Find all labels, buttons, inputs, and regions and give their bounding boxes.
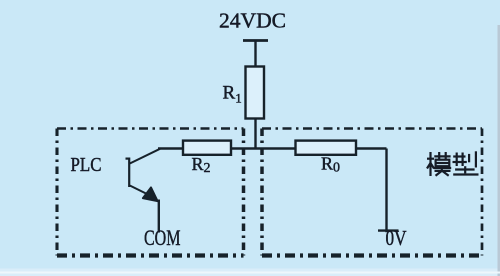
power terminal bar bbox=[243, 39, 268, 42]
transistor Q1 base bar bbox=[126, 158, 130, 188]
resistor R1 bbox=[246, 67, 265, 119]
resistor R0 bbox=[296, 141, 357, 155]
model enclosure box bbox=[262, 129, 482, 256]
horizontal wire bus bbox=[158, 147, 387, 149]
svg-text:PLC: PLC bbox=[71, 154, 102, 176]
wire R0 to 0V bbox=[385, 149, 387, 233]
svg-text:24VDC: 24VDC bbox=[219, 9, 286, 33]
svg-text:0V: 0V bbox=[386, 226, 407, 250]
PLC enclosure box bbox=[57, 129, 244, 256]
wire R1 to junction bbox=[254, 119, 256, 149]
label model (Chinese glyph mo) bbox=[427, 152, 451, 176]
transistor Q1 collector line bbox=[130, 149, 160, 164]
transistor Q1 emitter line bbox=[130, 186, 146, 194]
0V terminal tick bbox=[378, 229, 399, 231]
label model (Chinese glyph xing) bbox=[453, 151, 479, 174]
wire terminal to R1 bbox=[254, 41, 256, 68]
transistor Q1 emitter arrow bbox=[143, 187, 158, 201]
wire emitter to COM bbox=[158, 200, 160, 233]
svg-text:COM: COM bbox=[144, 225, 181, 250]
resistor R2 bbox=[183, 141, 231, 155]
